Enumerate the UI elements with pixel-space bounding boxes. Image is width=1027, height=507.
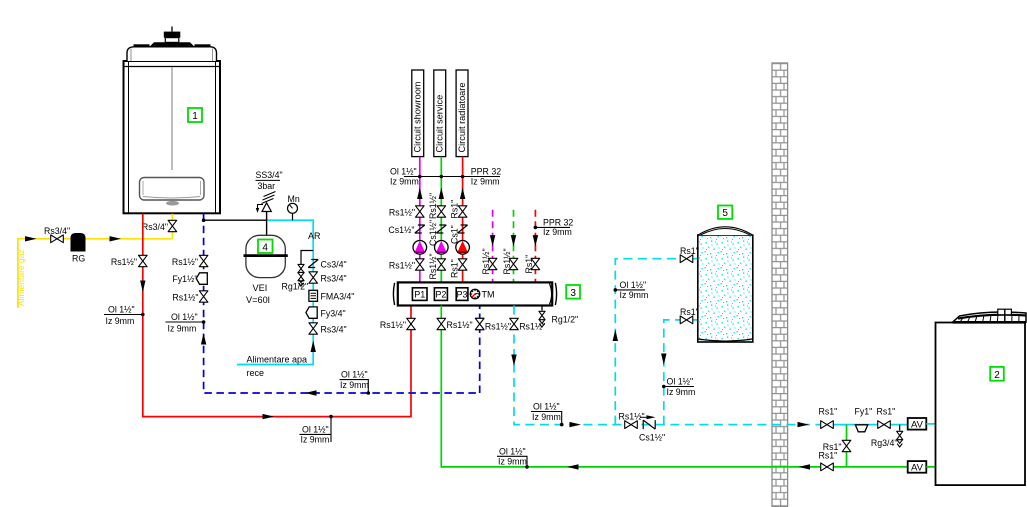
svg-text:AR: AR [308, 231, 321, 241]
svg-text:3: 3 [570, 288, 576, 299]
svg-text:Rs1½": Rs1½" [485, 321, 511, 331]
svg-text:Rs1½": Rs1½" [380, 320, 406, 330]
svg-text:Ol 1½": Ol 1½" [533, 402, 560, 412]
svg-text:5: 5 [722, 208, 728, 219]
svg-text:Rs1": Rs1" [680, 246, 699, 256]
svg-text:Alimentare apa: Alimentare apa [247, 355, 308, 365]
svg-text:Rg1/2": Rg1/2" [282, 281, 309, 291]
svg-text:Rs1": Rs1" [819, 406, 838, 416]
svg-text:AV: AV [911, 419, 924, 430]
svg-text:AV: AV [911, 462, 924, 473]
svg-text:Rs3/4": Rs3/4" [142, 222, 168, 232]
svg-text:FMA3/4": FMA3/4" [321, 291, 355, 301]
svg-text:Rs3/4": Rs3/4" [44, 226, 70, 236]
svg-text:Iz 9mm: Iz 9mm [498, 457, 527, 467]
svg-text:Ol 1½": Ol 1½" [171, 312, 198, 322]
svg-text:Rs1½": Rs1½" [519, 321, 545, 331]
svg-text:Rs1½": Rs1½" [619, 411, 645, 421]
svg-text:Rs1": Rs1" [449, 200, 459, 219]
svg-text:2: 2 [994, 370, 1000, 381]
svg-text:Ol 1½": Ol 1½" [108, 305, 135, 315]
svg-text:Ol 1½": Ol 1½" [302, 424, 329, 434]
svg-text:Rs1": Rs1" [680, 307, 699, 317]
svg-text:Circuit service: Circuit service [435, 95, 445, 153]
svg-text:Cs1½": Cs1½" [388, 225, 414, 235]
svg-text:Iz 9mm: Iz 9mm [106, 316, 135, 326]
svg-text:Rs1½": Rs1½" [111, 257, 137, 267]
svg-text:Rs3/4": Rs3/4" [321, 324, 347, 334]
svg-text:Fy1½": Fy1½" [172, 274, 197, 284]
svg-text:Iz 9mm: Iz 9mm [390, 176, 419, 186]
svg-text:P2: P2 [435, 290, 446, 300]
svg-text:Rs1½": Rs1½" [502, 248, 512, 274]
svg-text:RG: RG [72, 254, 85, 264]
svg-text:Ol 1½": Ol 1½" [341, 370, 368, 380]
svg-text:SS3/4": SS3/4" [256, 170, 283, 180]
svg-text:Fy1": Fy1" [855, 406, 873, 416]
svg-text:P3: P3 [456, 290, 467, 300]
svg-text:P1: P1 [414, 290, 425, 300]
svg-text:Iz 9mm: Iz 9mm [667, 387, 696, 397]
svg-text:Rg1/2": Rg1/2" [552, 314, 579, 324]
svg-text:Rs1½": Rs1½" [447, 320, 473, 330]
svg-text:Rs1½": Rs1½" [481, 248, 491, 274]
svg-text:Fy3/4": Fy3/4" [321, 308, 346, 318]
svg-text:Iz 9mm: Iz 9mm [168, 323, 197, 333]
svg-text:Iz 9mm: Iz 9mm [471, 176, 500, 186]
svg-text:Ol 1½": Ol 1½" [499, 446, 526, 456]
svg-text:Ol 1½": Ol 1½" [667, 377, 694, 387]
svg-text:Cs1½": Cs1½" [639, 432, 665, 442]
svg-text:Rs3/4": Rs3/4" [321, 273, 347, 283]
svg-text:Rs1½": Rs1½" [389, 260, 415, 270]
svg-text:Iz 9mm: Iz 9mm [543, 227, 572, 237]
svg-text:PPR 32: PPR 32 [471, 167, 501, 177]
svg-text:Rs1": Rs1" [877, 406, 896, 416]
svg-text:Circuit showroom: Circuit showroom [413, 81, 423, 152]
svg-text:VEI: VEI [253, 283, 268, 293]
svg-text:4: 4 [262, 242, 268, 253]
svg-text:V=60l: V=60l [246, 295, 270, 305]
svg-text:Rs1½": Rs1½" [428, 193, 438, 219]
svg-text:Cs1½": Cs1½" [428, 220, 438, 246]
svg-text:Ol 1½": Ol 1½" [620, 280, 647, 290]
svg-text:Rs1": Rs1" [819, 450, 838, 460]
svg-text:Rs1": Rs1" [449, 259, 459, 278]
svg-text:Rs1": Rs1" [524, 255, 534, 274]
svg-text:rece: rece [247, 368, 265, 378]
svg-text:Rs1½": Rs1½" [428, 253, 438, 279]
svg-text:1: 1 [192, 111, 198, 122]
svg-text:Rs1½": Rs1½" [172, 257, 198, 267]
svg-text:Iz 9mm: Iz 9mm [532, 412, 561, 422]
svg-text:Cs1": Cs1" [449, 225, 459, 244]
svg-text:Iz 9mm: Iz 9mm [301, 435, 330, 445]
svg-text:Mn: Mn [288, 194, 300, 204]
svg-text:Rg3/4": Rg3/4" [871, 438, 898, 448]
svg-text:Iz 9mm: Iz 9mm [340, 380, 369, 390]
svg-text:Circuit radiatoare: Circuit radiatoare [457, 83, 467, 153]
svg-text:Rs1½": Rs1½" [172, 292, 198, 302]
svg-text:PPR 32: PPR 32 [543, 217, 573, 227]
svg-text:Ol 1½": Ol 1½" [390, 167, 417, 177]
svg-text:Iz 9mm: Iz 9mm [620, 290, 649, 300]
svg-text:TM: TM [482, 290, 495, 300]
svg-text:Rs1½": Rs1½" [389, 207, 415, 217]
svg-text:3bar: 3bar [258, 181, 276, 191]
svg-text:Cs3/4": Cs3/4" [321, 259, 347, 269]
